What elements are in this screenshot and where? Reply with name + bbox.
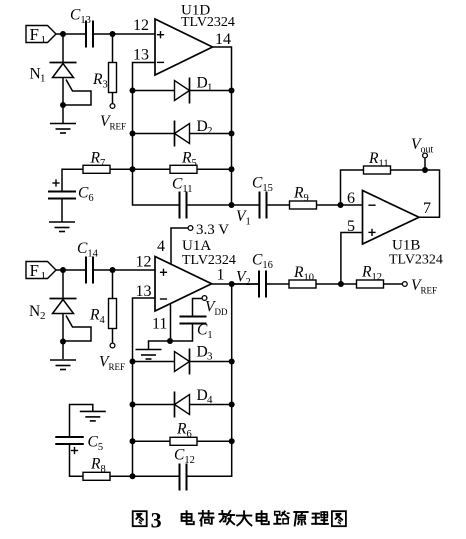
svg-text:TLV2324: TLV2324 (182, 253, 236, 268)
wire output 14 / right feedback bus 1 (213, 47, 232, 205)
caption glyph li (312, 512, 328, 524)
caption glyph dian (1) (182, 511, 194, 524)
wire R11 to pin 7 (391, 170, 440, 217)
capacitor C6 (48, 192, 76, 199)
wire pin1 to C16 (212, 283, 259, 285)
wire right feedback bus 2 (187, 284, 232, 476)
node D3 left (130, 359, 136, 365)
node D2 left (130, 131, 136, 137)
input flag F1 (top) (26, 25, 56, 46)
wire Vout stem (424, 158, 426, 170)
capacitor C1 (180, 317, 207, 324)
svg-text:3.3 V: 3.3 V (196, 222, 229, 238)
capacitor C11 (180, 192, 187, 219)
wire to R3 (112, 34, 114, 63)
node D4 right (229, 402, 235, 408)
wire C6 to ground (61, 199, 63, 223)
U1A plus (160, 269, 167, 276)
resistor R12 (357, 280, 384, 288)
capacitor C5 (55, 437, 84, 444)
wire R3 to VREF (112, 93, 114, 104)
wire pin4 to 3.3V (171, 228, 188, 264)
terminal VREF (R12) (402, 282, 407, 287)
resistor R3 (109, 63, 117, 93)
terminal VREF (R4) (110, 343, 115, 348)
node R5 left (130, 166, 136, 172)
wire C15 to R9 (267, 204, 290, 206)
node C11 right / V1 node (229, 202, 235, 208)
wire R8 to bus (110, 475, 133, 477)
resistor R8 (83, 472, 110, 480)
ground (C6) (49, 222, 75, 232)
U1B minus (368, 204, 375, 206)
svg-text:3: 3 (207, 351, 213, 363)
node R6 left (130, 438, 136, 444)
wire pin13 / left feedback bus 1 (133, 63, 180, 206)
svg-text:2: 2 (40, 310, 46, 322)
terminal Vout (423, 153, 428, 158)
diode D1 (175, 78, 190, 104)
capacitor C16 (259, 271, 266, 298)
wire pin5 down to V2 row (341, 233, 363, 285)
node F1/N2 junction (60, 267, 66, 273)
op-amp U1B (363, 191, 420, 245)
svg-text:4: 4 (207, 394, 213, 406)
svg-text:F: F (30, 261, 39, 280)
diode D2 (175, 121, 190, 147)
caption glyph tu (2) (332, 511, 346, 526)
node R5 right (229, 166, 235, 172)
node F1/N1 junction (60, 31, 66, 37)
resistor R4 (109, 299, 117, 329)
capacitor C12 (180, 464, 187, 491)
wire R7 to C6 (62, 169, 83, 191)
node N2 tap junction (60, 339, 66, 345)
wire pin6 to R11 (341, 170, 364, 205)
wire VDD to C1 (193, 299, 202, 317)
node C14/R4 junction (110, 267, 116, 273)
resistor R7 (83, 165, 110, 173)
svg-text:13: 13 (133, 47, 149, 64)
wire R4 to VREF (112, 329, 114, 343)
svg-text:4: 4 (157, 238, 165, 255)
ground (pin 11) (136, 350, 162, 360)
ground (N2) (50, 360, 76, 370)
caption glyph tu (1) (133, 511, 147, 526)
capacitor C13 (86, 21, 93, 48)
wire D1 row (133, 90, 232, 92)
wire R9 to pin 6 (317, 204, 363, 206)
node R6 right (229, 438, 235, 444)
terminal VREF (R3) (110, 104, 115, 109)
wire C16 to R10 (266, 283, 289, 285)
wire R6 row (133, 440, 232, 442)
svg-text:U1A: U1A (182, 238, 211, 254)
node D2 right (229, 131, 235, 137)
node pin6 node (338, 202, 344, 208)
svg-text:1: 1 (41, 34, 47, 46)
svg-text:11: 11 (152, 316, 167, 333)
svg-text:12: 12 (136, 254, 152, 271)
node pin5/R10/R12 node (338, 281, 344, 287)
wire C14 to pin 12 (93, 269, 155, 271)
resistor R10 (289, 280, 316, 288)
wire D3 row (133, 361, 232, 363)
wire R5 row (133, 168, 232, 170)
svg-text:1: 1 (40, 73, 46, 85)
svg-text:6: 6 (347, 190, 355, 207)
sensor N2 (50, 270, 92, 359)
terminal VDD (202, 296, 207, 301)
wire C11 to bus (187, 204, 232, 206)
svg-text:TLV2324: TLV2324 (181, 15, 235, 30)
wire R7 to bus (110, 168, 133, 170)
wire pin11 to ground (149, 341, 171, 350)
resistor R5 (170, 165, 197, 173)
op-amp U1A (155, 257, 212, 312)
ground (N1) (50, 124, 76, 134)
wire D2 row (133, 133, 232, 135)
wire C1 to pin11 node (170, 324, 193, 342)
wire V2 to C16 (232, 283, 259, 285)
resistor R9 (290, 201, 317, 209)
U1B plus (368, 229, 375, 236)
wire R10 to R12 (316, 283, 357, 285)
caption glyph dian (2) (257, 511, 269, 524)
svg-text:2: 2 (207, 125, 213, 137)
wire pin13 / left feedback bus 2 (133, 298, 180, 476)
caption glyph lu (274, 511, 289, 523)
resistor R11 (364, 166, 391, 174)
wire C13 to pin 12 (93, 33, 155, 35)
wire C5 to ground (70, 405, 93, 438)
node D4 left (130, 402, 136, 408)
svg-text:U1B: U1B (392, 238, 420, 254)
node C13/R3 junction (110, 31, 116, 37)
svg-text:3: 3 (151, 507, 162, 532)
node D3 right (229, 359, 235, 365)
U1A minus (160, 298, 167, 300)
wire F1 to C13 (56, 33, 86, 35)
node pin11 node (167, 338, 173, 344)
node D1 left (130, 88, 136, 94)
wire R8 to C5 (70, 444, 84, 476)
wire D4 row (133, 404, 232, 406)
capacitor C15 (260, 192, 267, 219)
terminal 3.3V (188, 226, 193, 231)
op-amp U1D (155, 19, 213, 75)
svg-text:N: N (29, 303, 40, 320)
resistor R6 (170, 437, 197, 445)
caption glyph yuan (294, 512, 307, 525)
U1D minus (157, 61, 164, 63)
wire pin 11 (170, 304, 172, 342)
svg-text:12: 12 (133, 17, 149, 34)
svg-text:7: 7 (423, 200, 431, 217)
U1D plus (157, 31, 164, 38)
svg-text:14: 14 (215, 31, 231, 48)
wire F1 to C14 (56, 269, 86, 271)
wire R12 to VREF (384, 283, 403, 285)
caption glyph fang (219, 511, 234, 524)
input flag F1 (bottom) (26, 261, 56, 282)
C6 plus sign (52, 179, 59, 186)
svg-text:F: F (30, 25, 39, 44)
caption glyph he (199, 511, 214, 526)
svg-text:1: 1 (207, 82, 213, 94)
ground (C5) (80, 411, 106, 421)
node C12 left node (130, 473, 136, 479)
node N1 tap junction (60, 102, 66, 108)
C5 plus sign (71, 447, 78, 454)
node D1 right (229, 88, 235, 94)
wire V1 node to C15 (232, 204, 260, 206)
sensor N1 (50, 34, 92, 123)
caption glyph da (237, 511, 252, 525)
wire to R4 (112, 270, 114, 299)
svg-text:TLV2324: TLV2324 (389, 253, 443, 268)
capacitor C14 (86, 257, 93, 284)
diode D4 (175, 392, 190, 418)
node Vout node (422, 167, 428, 173)
svg-text:1: 1 (41, 270, 47, 282)
svg-text:1: 1 (217, 267, 225, 284)
node V2 node (229, 281, 235, 287)
diode D3 (175, 349, 190, 375)
